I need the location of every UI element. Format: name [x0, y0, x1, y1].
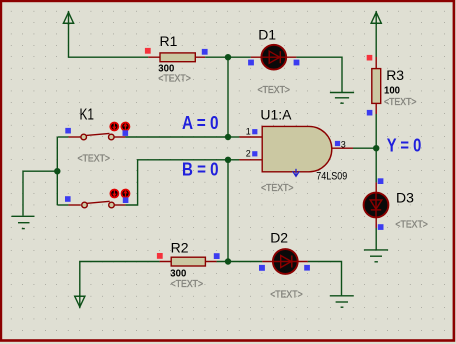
- pin state square U1 pin 3 (low): [335, 141, 340, 146]
- wire D3 to ground: [375, 228, 377, 250]
- svg-text:<TEXT>: <TEXT>: [261, 183, 294, 194]
- pin state square K1 pole B left (low): [65, 196, 71, 202]
- junction node A: [225, 134, 231, 140]
- pin state square K1 pole A left (low): [65, 128, 71, 134]
- wire D2 to ground: [308, 262, 342, 296]
- svg-text:<TEXT>: <TEXT>: [171, 279, 204, 290]
- wire node down to node A: [227, 57, 229, 137]
- wire VCC to R3: [375, 24, 377, 57]
- K1 pole B actuator button up: [122, 190, 130, 198]
- pin state square D2 cathode (low): [304, 265, 310, 271]
- pin state square R2 right (low): [214, 253, 220, 259]
- K1 pole B actuator button down: [110, 190, 118, 198]
- pin state square D3 top (low): [378, 178, 384, 184]
- wire power to R2: [80, 262, 160, 297]
- power symbol VCC top-right: [371, 11, 382, 25]
- wire R3 to node Y: [375, 114, 377, 148]
- LED D2: [262, 249, 308, 274]
- wire switch A to node A: [125, 136, 228, 138]
- svg-text:K1: K1: [80, 107, 95, 124]
- wire R1 to D1: [205, 56, 251, 58]
- pin state square R3 bottom (low): [367, 110, 373, 116]
- wire node B down to node R2: [227, 160, 229, 262]
- pin state square R1 pin 1 (high): [145, 48, 151, 54]
- svg-text:1: 1: [246, 127, 251, 137]
- junction node B: [225, 157, 231, 163]
- pin state square D1 anode (low): [248, 60, 254, 66]
- svg-text:<TEXT>: <TEXT>: [395, 219, 428, 230]
- wire switch B to node B: [125, 160, 228, 205]
- K1 pole A actuator button up: [121, 123, 129, 131]
- wire gate output to node Y: [353, 147, 376, 149]
- ground K1: [12, 216, 35, 228]
- svg-text:R3: R3: [386, 67, 404, 83]
- svg-text:<TEXT>: <TEXT>: [158, 74, 191, 85]
- U1 open-collector symbol: [293, 169, 300, 177]
- pin state square D3 bottom (low): [378, 224, 384, 230]
- pin state square U1 pin 2 (low): [252, 151, 257, 156]
- wire rail to switch B: [57, 204, 68, 206]
- svg-text:D1: D1: [258, 27, 276, 43]
- svg-text:Y = 0: Y = 0: [387, 136, 422, 156]
- svg-text:<TEXT>: <TEXT>: [270, 289, 303, 300]
- pin state square R2 left (high): [157, 253, 163, 259]
- pin state square U1 pin 1 (low): [252, 129, 257, 134]
- junction node rail: [54, 168, 60, 174]
- junction node R2/D2: [225, 258, 231, 264]
- ground D2: [330, 296, 354, 307]
- K1 pole A actuator button down: [110, 123, 118, 131]
- wire node B to gate pin 2: [228, 159, 239, 161]
- ground D3: [364, 250, 388, 262]
- svg-text:<TEXT>: <TEXT>: [78, 153, 111, 164]
- wire node A to gate pin 1: [228, 136, 239, 138]
- svg-text:100: 100: [384, 86, 400, 97]
- resistor R1: [148, 53, 205, 62]
- power symbol down R2: [74, 295, 85, 308]
- svg-text:<TEXT>: <TEXT>: [384, 97, 417, 108]
- LED D1: [251, 45, 297, 70]
- svg-text:<TEXT>: <TEXT>: [258, 85, 291, 96]
- ground D1: [330, 93, 354, 104]
- svg-text:74LS09: 74LS09: [316, 171, 347, 183]
- pin state square D1 cathode (low): [294, 60, 300, 66]
- LED D3: [364, 182, 389, 228]
- svg-text:B = 0: B = 0: [182, 159, 219, 179]
- wire D1 to ground: [296, 57, 342, 92]
- svg-text:300: 300: [170, 269, 186, 280]
- switch K1 pole B: [68, 201, 125, 208]
- wire rail K1: [56, 137, 58, 205]
- pin state square R3 top (high): [367, 55, 373, 61]
- pin state square K1 pole A right (low): [123, 130, 129, 136]
- wire VCC to R1: [69, 24, 149, 57]
- pin state square K1 pole B right (low): [123, 197, 129, 203]
- wire rail to switch A: [57, 136, 68, 138]
- power symbol VCC top-left: [63, 11, 74, 25]
- svg-text:R1: R1: [160, 33, 178, 49]
- AND gate U1:A: [239, 126, 353, 171]
- switch K1 pole A: [68, 133, 125, 139]
- pin state square R1 pin 2 (low): [202, 49, 208, 55]
- pin state square D2 anode (low): [259, 265, 265, 271]
- svg-text:D3: D3: [396, 190, 414, 206]
- svg-text:D2: D2: [270, 230, 288, 246]
- junction node R1/D1/A column: [225, 54, 231, 60]
- svg-text:U1:A: U1:A: [260, 106, 292, 122]
- svg-text:3: 3: [341, 140, 346, 150]
- wire R2 to D2: [217, 261, 263, 263]
- wire ground to rail junction: [23, 171, 57, 215]
- junction node Y: [373, 145, 379, 151]
- svg-text:R2: R2: [171, 239, 189, 255]
- svg-text:A = 0: A = 0: [182, 113, 219, 133]
- wire node Y to D3: [375, 148, 377, 182]
- resistor R3: [372, 57, 381, 114]
- svg-text:2: 2: [246, 148, 251, 158]
- resistor R2: [160, 257, 217, 266]
